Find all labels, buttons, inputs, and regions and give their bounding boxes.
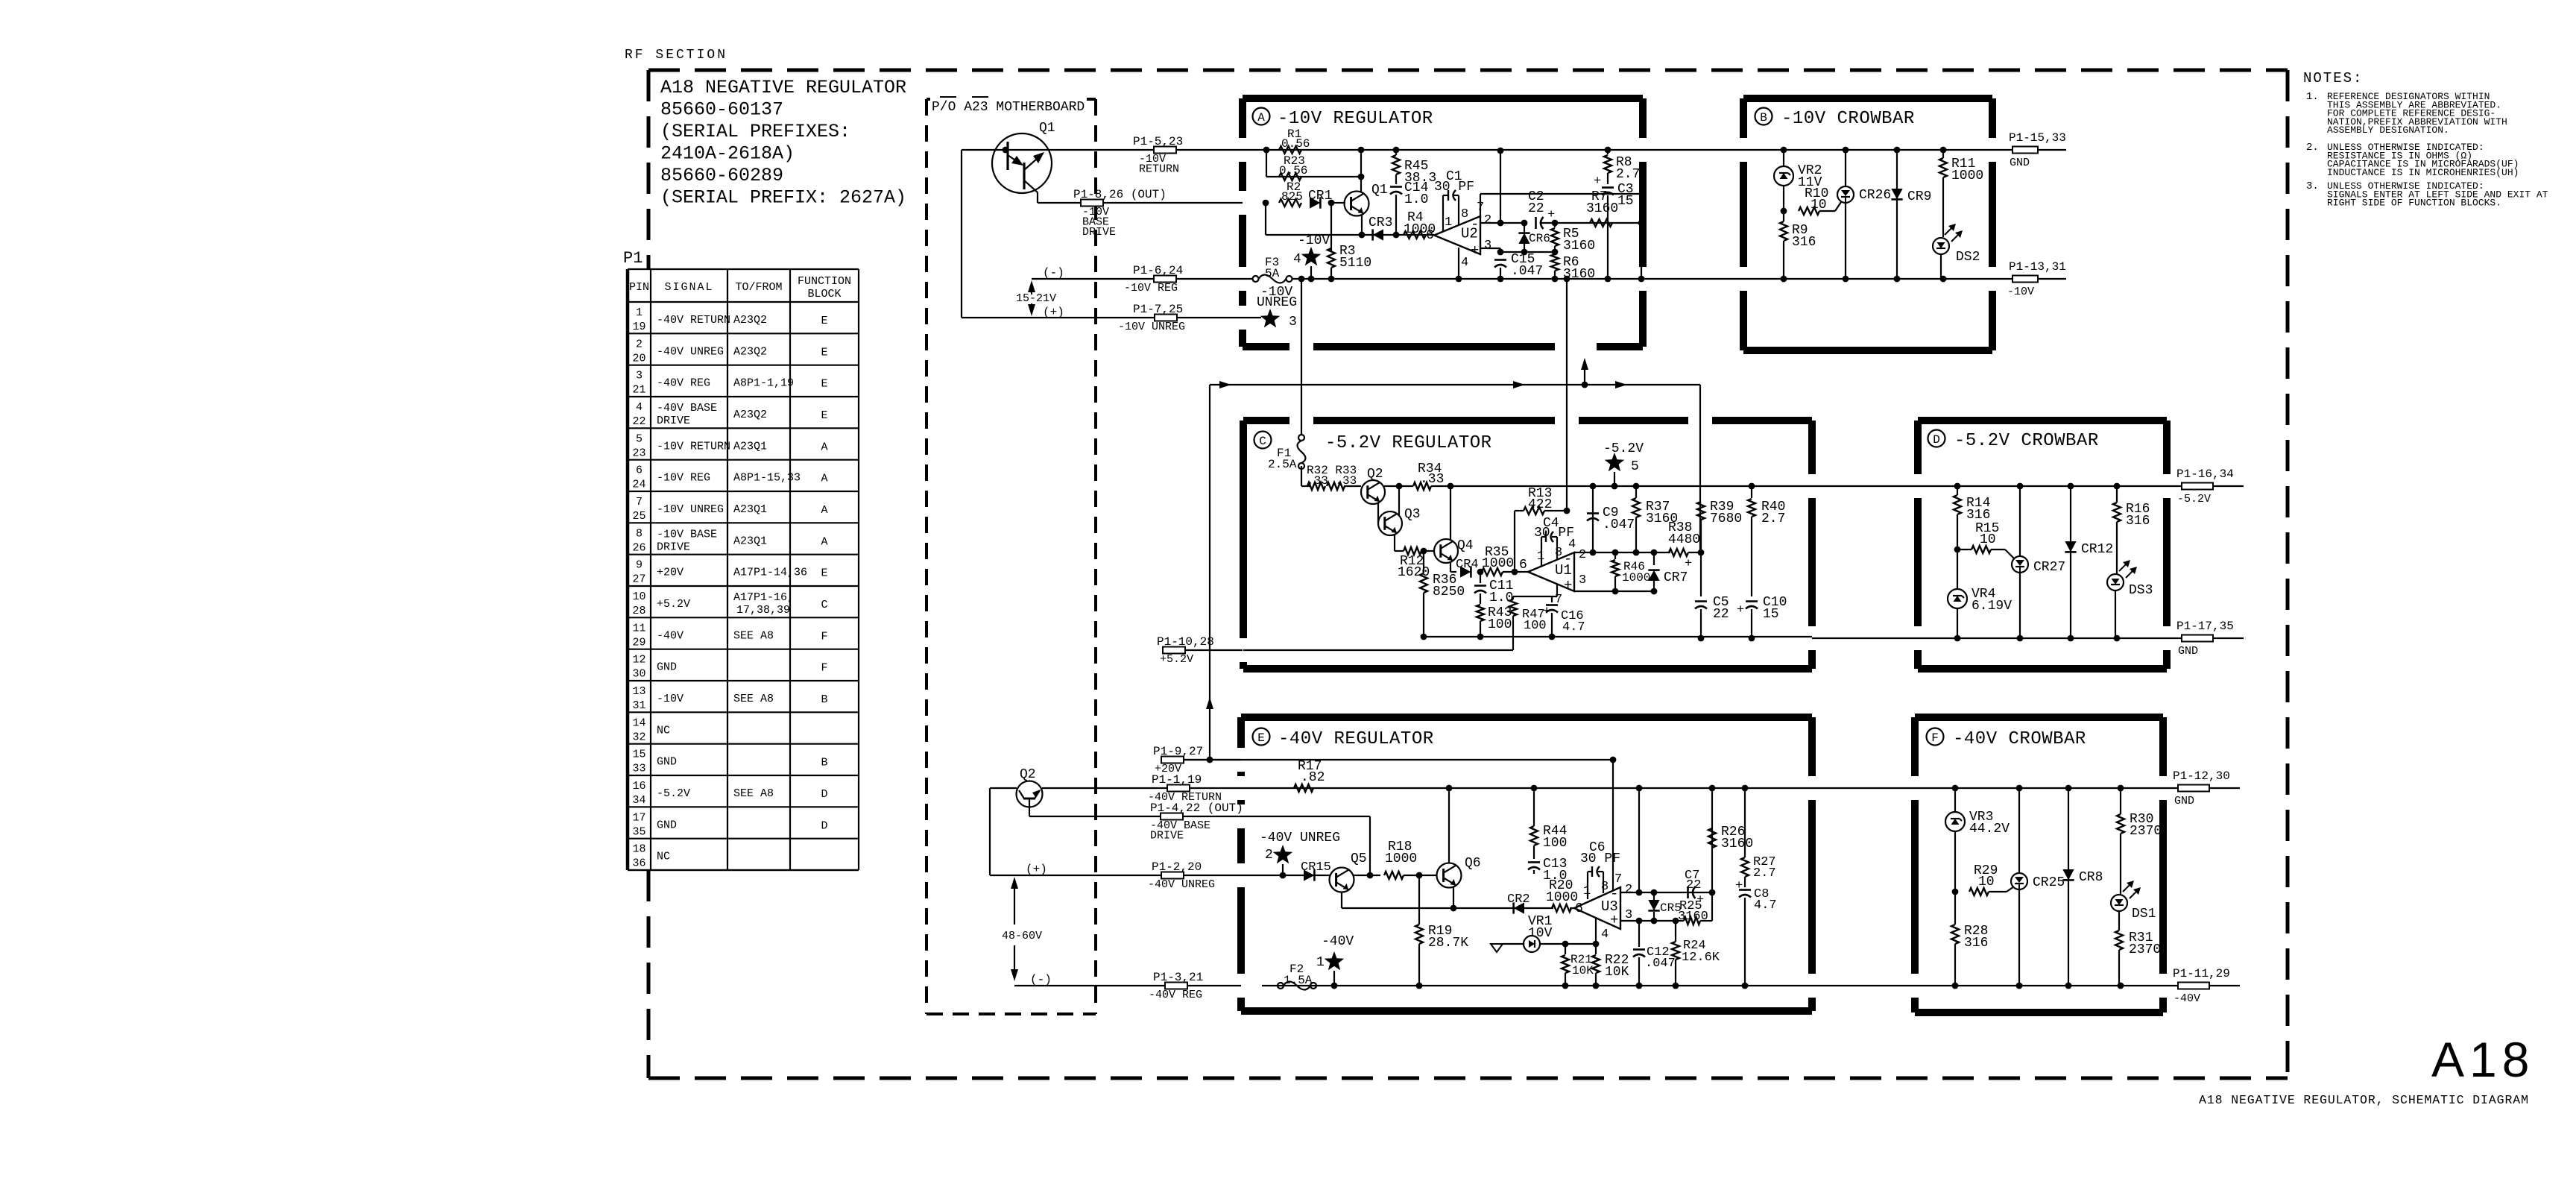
svg-text:GND: GND (2174, 795, 2194, 807)
svg-text:-40V REGULATOR: -40V REGULATOR (1278, 729, 1434, 749)
svg-text:F: F (821, 630, 827, 643)
svg-text:2.: 2. (2306, 142, 2319, 154)
svg-text:E: E (1257, 731, 1265, 745)
svg-text:3.: 3. (2306, 180, 2319, 192)
svg-text:10: 10 (632, 590, 645, 603)
svg-text:33: 33 (632, 763, 645, 775)
svg-text:-40V REG: -40V REG (657, 377, 710, 390)
svg-text:28.7K: 28.7K (1428, 936, 1468, 951)
svg-text:1000: 1000 (1546, 890, 1578, 905)
svg-text:-: - (1564, 551, 1572, 567)
svg-text:A8P1-15,33: A8P1-15,33 (733, 472, 801, 485)
svg-text:28: 28 (632, 605, 645, 617)
svg-text:18: 18 (632, 843, 645, 856)
svg-text:-5.2V: -5.2V (2177, 493, 2211, 506)
svg-text:-10V REG: -10V REG (1124, 282, 1178, 295)
svg-text:22: 22 (1686, 878, 1701, 892)
svg-text:Q3: Q3 (1404, 507, 1421, 522)
svg-text:1: 1 (1316, 955, 1325, 970)
svg-text:2.7: 2.7 (1761, 511, 1785, 526)
svg-text:P1-1,19: P1-1,19 (1152, 773, 1202, 787)
svg-text:17: 17 (632, 811, 645, 824)
svg-text:30 PF: 30 PF (1534, 526, 1574, 541)
svg-text:19: 19 (632, 321, 645, 333)
svg-text:P1-10,28: P1-10,28 (1157, 635, 1214, 649)
svg-text:-10V: -10V (657, 693, 684, 705)
svg-text:44.2V: 44.2V (1969, 822, 2010, 837)
svg-text:C: C (1259, 435, 1266, 448)
svg-text:4.7: 4.7 (1754, 898, 1777, 913)
svg-text:D: D (1933, 433, 1940, 447)
svg-text:DRIVE: DRIVE (1150, 830, 1184, 843)
svg-text:-10V: -10V (1298, 233, 1330, 248)
svg-text:-10V CROWBAR: -10V CROWBAR (1781, 109, 1915, 129)
svg-text:DRIVE: DRIVE (657, 415, 690, 427)
svg-text:-40V BASE: -40V BASE (657, 402, 717, 415)
svg-text:8: 8 (1601, 880, 1609, 894)
svg-text:1.5A: 1.5A (1284, 974, 1313, 987)
svg-text:GND: GND (2010, 157, 2030, 169)
svg-text:3160: 3160 (1678, 910, 1708, 924)
svg-text:B: B (821, 693, 827, 706)
svg-text:P1-8,26 (OUT): P1-8,26 (OUT) (1073, 188, 1167, 201)
svg-text:RIGHT SIDE OF FUNCTION BLOCKS.: RIGHT SIDE OF FUNCTION BLOCKS. (2327, 198, 2501, 209)
svg-text:.047: .047 (1603, 517, 1635, 532)
svg-text:GND: GND (2178, 645, 2198, 658)
svg-text:26: 26 (632, 541, 645, 554)
svg-text:A18 NEGATIVE REGULATOR, SCHEMA: A18 NEGATIVE REGULATOR, SCHEMATIC DIAGRA… (2199, 1093, 2529, 1107)
svg-text:2: 2 (636, 338, 643, 350)
svg-text:.82: .82 (1301, 770, 1325, 785)
svg-text:34: 34 (632, 794, 645, 807)
svg-text:CR2: CR2 (1507, 892, 1530, 907)
svg-text:11: 11 (632, 622, 645, 634)
svg-text:8: 8 (1555, 546, 1562, 560)
svg-text:.047: .047 (1645, 957, 1676, 971)
svg-text:GND: GND (657, 661, 677, 674)
svg-text:32: 32 (632, 731, 645, 743)
svg-text:A23Q2: A23Q2 (733, 345, 767, 358)
svg-text:-5.2V CROWBAR: -5.2V CROWBAR (1954, 431, 2099, 451)
svg-text:2: 2 (1625, 883, 1632, 897)
svg-text:F: F (1931, 731, 1939, 745)
svg-text:5: 5 (1631, 459, 1639, 474)
svg-text:-: - (1471, 216, 1479, 233)
svg-text:SEE A8: SEE A8 (733, 629, 774, 642)
svg-text:C: C (821, 599, 827, 611)
svg-text:17,38,39: 17,38,39 (736, 604, 790, 617)
svg-text:1: 1 (636, 306, 643, 319)
svg-text:-10V UNREG: -10V UNREG (657, 503, 724, 516)
svg-text:E: E (821, 567, 827, 580)
svg-text:SEE A8: SEE A8 (733, 693, 774, 705)
svg-text:+: + (1735, 879, 1743, 893)
svg-text:100: 100 (1524, 619, 1547, 633)
svg-text:15-21V: 15-21V (1016, 292, 1056, 305)
svg-text:422: 422 (1528, 497, 1552, 512)
svg-text:+5.2V: +5.2V (657, 598, 690, 611)
svg-text:Q1: Q1 (1039, 121, 1055, 136)
svg-text:NC: NC (657, 724, 670, 737)
svg-text:825: 825 (1281, 190, 1303, 204)
svg-text:P1-11,29: P1-11,29 (2173, 967, 2230, 980)
svg-text:2410A-2618A): 2410A-2618A) (660, 143, 795, 165)
svg-text:B: B (821, 757, 827, 769)
svg-text:-5.2V: -5.2V (657, 787, 690, 800)
svg-text:DRIVE: DRIVE (1082, 226, 1116, 239)
svg-text:15: 15 (632, 749, 645, 761)
svg-text:1.: 1. (2306, 91, 2319, 103)
svg-text:Q5: Q5 (1351, 851, 1367, 866)
svg-text:ASSEMBLY DESIGNATION.: ASSEMBLY DESIGNATION. (2327, 125, 2449, 136)
svg-text:2: 2 (1579, 548, 1586, 562)
svg-text:1000: 1000 (1951, 169, 1983, 183)
svg-text:3: 3 (636, 370, 643, 382)
svg-text:27: 27 (632, 573, 645, 586)
svg-text:1000: 1000 (1622, 571, 1650, 585)
svg-text:4: 4 (1293, 252, 1301, 267)
svg-text:2: 2 (1265, 848, 1273, 863)
svg-text:6.19V: 6.19V (1972, 599, 2012, 614)
svg-text:-10V: -10V (2007, 286, 2034, 298)
svg-text:3160: 3160 (1586, 201, 1618, 216)
svg-text:P1-3,21: P1-3,21 (1153, 971, 1203, 984)
svg-text:CR26: CR26 (1859, 188, 1891, 203)
svg-text:4: 4 (636, 401, 643, 414)
svg-text:A: A (821, 535, 827, 548)
svg-text:CR6: CR6 (1529, 232, 1550, 245)
svg-text:.33: .33 (1420, 472, 1444, 487)
svg-text:+: + (1685, 557, 1692, 571)
svg-text:8250: 8250 (1433, 585, 1465, 599)
svg-text:22: 22 (632, 415, 645, 428)
svg-text:A17P1-16,: A17P1-16, (733, 591, 794, 604)
svg-text:+: + (1737, 603, 1744, 617)
svg-text:2370: 2370 (2130, 824, 2162, 839)
svg-text:D: D (821, 819, 827, 832)
svg-text:A: A (821, 441, 827, 453)
svg-text:P/O A23 MOTHERBOARD: P/O A23 MOTHERBOARD (932, 100, 1085, 115)
svg-text:Q1: Q1 (1371, 183, 1388, 198)
svg-text:-40V CROWBAR: -40V CROWBAR (1953, 729, 2086, 749)
svg-text:1.0: 1.0 (1489, 590, 1513, 605)
svg-text:25: 25 (632, 510, 645, 523)
svg-text:0.56: 0.56 (1281, 137, 1310, 151)
svg-text:CR3: CR3 (1368, 215, 1392, 230)
svg-text:3: 3 (1579, 573, 1586, 588)
svg-text:100: 100 (1543, 836, 1567, 851)
svg-text:21: 21 (632, 384, 645, 397)
svg-text:SEE A8: SEE A8 (733, 787, 774, 800)
svg-text:GND: GND (657, 819, 677, 831)
svg-text:CR25: CR25 (2033, 875, 2065, 890)
svg-text:CR12: CR12 (2081, 542, 2113, 557)
svg-text:DS3: DS3 (2129, 583, 2153, 598)
svg-text:-5.2V: -5.2V (1603, 441, 1644, 456)
svg-text:SIGNAL: SIGNAL (664, 281, 713, 294)
svg-text:2.7: 2.7 (1753, 866, 1776, 881)
svg-text:FUNCTION: FUNCTION (798, 275, 851, 288)
svg-text:+20V: +20V (657, 567, 684, 579)
svg-text:13: 13 (632, 685, 645, 698)
svg-text:INDUCTANCE IS IN MICROHENRIES(: INDUCTANCE IS IN MICROHENRIES(UH) (2327, 167, 2519, 178)
svg-text:A8P1-1,19: A8P1-1,19 (733, 377, 794, 390)
svg-text:316: 316 (2126, 514, 2150, 529)
svg-text:-40V: -40V (1322, 934, 1354, 949)
svg-text:15: 15 (1763, 607, 1779, 622)
svg-text:4: 4 (1461, 256, 1468, 270)
svg-text:CR7: CR7 (1664, 570, 1688, 585)
svg-text:4: 4 (1601, 928, 1609, 942)
svg-text:10V: 10V (1528, 926, 1553, 941)
svg-text:9: 9 (636, 559, 643, 572)
svg-text:GND: GND (657, 756, 677, 769)
svg-text:-5.2V REGULATOR: -5.2V REGULATOR (1325, 433, 1492, 453)
svg-text:A23Q1: A23Q1 (733, 440, 767, 453)
svg-text:48-60V: 48-60V (1002, 930, 1042, 942)
svg-text:-10V REGULATOR: -10V REGULATOR (1278, 109, 1433, 129)
svg-text:10: 10 (1980, 532, 1996, 547)
svg-text:NOTES:: NOTES: (2303, 70, 2363, 86)
svg-text:24: 24 (632, 479, 645, 491)
svg-text:A23Q1: A23Q1 (733, 535, 767, 547)
svg-text:29: 29 (632, 636, 645, 649)
svg-text:6: 6 (636, 464, 643, 477)
svg-text:4480: 4480 (1668, 532, 1700, 547)
svg-text:-40V REG: -40V REG (1149, 989, 1202, 1001)
svg-text:316: 316 (1964, 936, 1988, 951)
svg-text:30 PF: 30 PF (1434, 180, 1474, 195)
svg-text:(-): (-) (1030, 973, 1052, 986)
svg-text:E: E (821, 409, 827, 422)
svg-text:3: 3 (1484, 239, 1491, 253)
svg-text:A23Q2: A23Q2 (733, 409, 767, 421)
svg-text:15: 15 (1617, 194, 1634, 209)
svg-text:UNREG: UNREG (1257, 295, 1297, 310)
svg-text:CR4: CR4 (1456, 558, 1479, 572)
svg-text:P1-13,31: P1-13,31 (2009, 260, 2066, 274)
svg-text:12.6K: 12.6K (1682, 951, 1720, 965)
svg-text:E: E (821, 315, 827, 327)
svg-text:P1-7,25: P1-7,25 (1133, 303, 1183, 316)
svg-text:23: 23 (632, 447, 645, 459)
svg-text:1.0: 1.0 (1404, 192, 1428, 207)
svg-text:+5.2V: +5.2V (1160, 653, 1193, 666)
svg-text:Q4: Q4 (1457, 538, 1474, 553)
svg-text:BLOCK: BLOCK (807, 288, 841, 300)
svg-text:10K: 10K (1572, 964, 1594, 977)
svg-text:30 PF: 30 PF (1580, 851, 1620, 866)
svg-text:(SERIAL PREFIXES:: (SERIAL PREFIXES: (660, 121, 850, 142)
svg-text:12: 12 (632, 654, 645, 667)
svg-text:DS1: DS1 (2132, 907, 2156, 922)
svg-text:P1-16,34: P1-16,34 (2176, 467, 2234, 481)
svg-text:E: E (821, 378, 827, 391)
svg-text:-40V: -40V (657, 629, 684, 642)
svg-text:P1: P1 (623, 249, 643, 268)
svg-text:22: 22 (1528, 201, 1544, 216)
svg-text:1: 1 (1445, 215, 1452, 230)
svg-text:14: 14 (632, 717, 645, 729)
svg-text:RF SECTION: RF SECTION (625, 48, 727, 63)
svg-text:A: A (821, 504, 827, 517)
svg-text:10K: 10K (1605, 965, 1629, 980)
svg-text:31: 31 (632, 699, 645, 712)
svg-text:CR15: CR15 (1301, 860, 1331, 875)
svg-text:22: 22 (1713, 607, 1729, 622)
svg-text:(SERIAL PREFIX: 2627A): (SERIAL PREFIX: 2627A) (660, 187, 906, 209)
svg-text:CR9: CR9 (1907, 189, 1931, 204)
svg-text:A17P1-14,36: A17P1-14,36 (733, 567, 807, 579)
svg-text:(+): (+) (1026, 863, 1047, 876)
svg-text:0.56: 0.56 (1279, 164, 1307, 177)
svg-text:3: 3 (1289, 315, 1297, 330)
svg-text:20: 20 (632, 352, 645, 365)
svg-text:Q2: Q2 (1020, 767, 1036, 782)
svg-text:P1-9,27: P1-9,27 (1153, 745, 1203, 758)
svg-text:1000: 1000 (1385, 851, 1417, 866)
svg-text:8: 8 (1461, 207, 1468, 221)
svg-text:5: 5 (636, 432, 643, 445)
svg-text:+: + (1564, 577, 1572, 593)
svg-text:A23Q2: A23Q2 (733, 314, 767, 327)
svg-text:Q2: Q2 (1367, 467, 1383, 482)
svg-text:316: 316 (1792, 235, 1816, 250)
svg-text:-10V UNREG: -10V UNREG (1118, 321, 1185, 333)
svg-text:+: + (1594, 174, 1601, 189)
svg-text:35: 35 (632, 825, 645, 838)
svg-text:NC: NC (657, 851, 670, 863)
svg-text:2370: 2370 (2129, 942, 2161, 957)
svg-text:A23Q1: A23Q1 (733, 503, 767, 516)
svg-text:DRIVE: DRIVE (657, 541, 690, 553)
svg-text:F: F (821, 662, 827, 675)
svg-text:A18 NEGATIVE REGULATOR: A18 NEGATIVE REGULATOR (660, 77, 906, 98)
svg-text:30: 30 (632, 668, 645, 681)
svg-text:85660-60289: 85660-60289 (660, 165, 783, 186)
svg-text:A: A (1257, 111, 1265, 125)
svg-text:-10V REG: -10V REG (657, 472, 710, 485)
svg-text:DS2: DS2 (1956, 250, 1980, 265)
svg-text:(-): (-) (1043, 266, 1064, 280)
svg-text:100: 100 (1488, 617, 1512, 632)
svg-text:-40V: -40V (2173, 992, 2200, 1005)
svg-text:2.5A: 2.5A (1268, 458, 1297, 471)
svg-text:P1-2,20: P1-2,20 (1152, 860, 1202, 874)
svg-text:B: B (1760, 111, 1767, 125)
svg-text:-: - (1610, 886, 1618, 902)
svg-text:P1-6,24: P1-6,24 (1133, 264, 1183, 277)
svg-text:(+): (+) (1043, 306, 1064, 319)
svg-text:2: 2 (1484, 213, 1491, 227)
svg-text:-40V UNREG: -40V UNREG (1148, 878, 1215, 891)
svg-text:P1-17,35: P1-17,35 (2176, 620, 2234, 633)
svg-text:D: D (821, 788, 827, 801)
svg-text:16: 16 (632, 780, 645, 793)
svg-text:P1-4,22 (OUT): P1-4,22 (OUT) (1150, 801, 1243, 815)
svg-text:8: 8 (636, 527, 643, 540)
svg-text:7680: 7680 (1710, 511, 1742, 526)
svg-text:316: 316 (1966, 508, 1990, 523)
svg-text:10: 10 (1978, 875, 1995, 889)
svg-text:3160: 3160 (1721, 837, 1753, 851)
svg-text:36: 36 (632, 857, 645, 870)
svg-text:TO/FROM: TO/FROM (735, 281, 782, 294)
svg-text:P1-15,33: P1-15,33 (2009, 131, 2066, 145)
svg-text:PIN: PIN (629, 281, 649, 294)
svg-text:CR27: CR27 (2033, 560, 2065, 575)
svg-text:-40V UNREG: -40V UNREG (657, 345, 724, 358)
svg-text:7: 7 (1614, 872, 1622, 886)
svg-text:6: 6 (1519, 558, 1527, 573)
svg-text:1000: 1000 (1482, 556, 1514, 571)
svg-text:P1-12,30: P1-12,30 (2173, 769, 2230, 783)
svg-text:A: A (821, 473, 827, 485)
svg-text:-10V BASE: -10V BASE (657, 528, 717, 541)
svg-text:RETURN: RETURN (1139, 163, 1179, 176)
svg-text:3160: 3160 (1563, 239, 1595, 253)
svg-text:+: + (1471, 242, 1479, 259)
svg-text:7: 7 (636, 496, 643, 508)
svg-text:-10V RETURN: -10V RETURN (657, 440, 730, 453)
svg-text:5110: 5110 (1339, 256, 1371, 271)
svg-text:+: + (1610, 912, 1618, 928)
svg-text:E: E (821, 346, 827, 359)
svg-text:4.7: 4.7 (1562, 620, 1585, 634)
svg-text:Q6: Q6 (1465, 856, 1481, 871)
svg-text:P1-5,23: P1-5,23 (1133, 135, 1183, 148)
svg-text:-40V UNREG: -40V UNREG (1260, 831, 1340, 845)
svg-text:A18: A18 (2431, 1032, 2534, 1087)
svg-text:2.7: 2.7 (1616, 167, 1640, 182)
svg-text:-40V RETURN: -40V RETURN (657, 314, 730, 327)
svg-text:CR8: CR8 (2079, 870, 2103, 885)
svg-text:85660-60137: 85660-60137 (660, 99, 783, 121)
svg-text:5A: 5A (1265, 267, 1280, 280)
svg-text:.047: .047 (1511, 264, 1543, 279)
